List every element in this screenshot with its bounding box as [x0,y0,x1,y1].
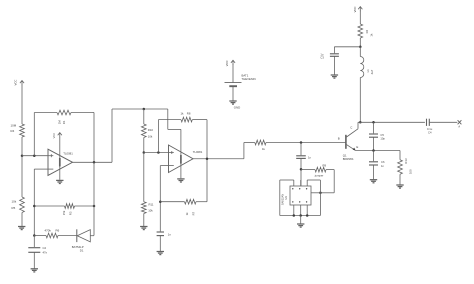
capacitor C2 [28,246,47,254]
wire C8 bottom [159,236,161,252]
wire C7 bottom to IC [300,158,302,186]
resistor R7 [185,199,197,215]
ground (under IC) [297,224,304,227]
node A junction (U1 + input divider tap) [21,154,24,157]
wire C5 top [373,122,375,133]
wire U1 output [73,161,113,163]
wire R9 down [333,170,335,193]
svg-text:C4: C4 [428,131,432,135]
ground (under C2) [31,269,38,272]
svg-text:10k: 10k [148,134,153,138]
inductor L1 [360,57,374,78]
ground (under C8) [157,252,164,255]
wire L1 to collector [359,78,361,123]
wire R3 left lead [34,205,64,207]
wire D1 anode to output net [90,235,94,237]
wire R11 to ground [143,214,145,227]
node Q junction (collector) [359,121,362,124]
svg-text:TL0081: TL0081 [63,151,73,155]
IC U3 SA612AN box [281,186,311,205]
svg-text:R13: R13 [404,158,408,164]
node N junction (IC right pin) [319,192,322,195]
wire node A to U1 + input [22,155,48,157]
wire signal jog down [167,109,169,129]
wire C6 bottom [373,165,375,179]
capacitor C5 [369,133,385,140]
wire C6 top [373,151,375,162]
resistor R11 [141,153,153,214]
wire C7 top [300,143,302,156]
wire R9 right lead [326,169,334,171]
svg-text:C: C [350,125,352,129]
IC pin 1 wrap wire [280,180,294,216]
svg-text:R7: R7 [191,211,195,215]
power VCC arrow (U1 V+ pin) [52,133,62,139]
svg-text:VCC: VCC [225,60,229,66]
resistor R5 10k [12,197,25,213]
svg-text:BFR96S: BFR96S [343,157,354,161]
wire R4 to node A [21,137,23,156]
svg-text:C6: C6 [381,160,385,164]
svg-text:VCC: VCC [14,80,18,86]
wire R6 to D1 cathode [58,235,77,237]
ground (under C6) [370,180,377,183]
svg-text:E: E [356,145,358,149]
port OUT [458,120,462,128]
capacitor C6 [369,160,385,168]
svg-text:R10: R10 [148,128,154,132]
op-amp U1 TL0081 [48,149,73,175]
svg-text:SA612AN: SA612AN [281,194,285,206]
junction dots on ground rail [293,214,309,217]
wire U2 output [193,158,244,160]
wire output net down to diode [93,162,95,235]
svg-text:R5: R5 [12,206,16,210]
wire U1 - input vertical [33,169,35,235]
resistor R8 [181,111,193,122]
resistor R6 470k [45,228,60,238]
IC pin 1 top stub [293,180,295,186]
wire R9 left lead [301,169,315,171]
battery BAT1 THEVENIN [225,73,256,86]
IC pin 3 top stub [306,180,308,186]
wire node N to ground rail [319,193,321,216]
svg-text:R2: R2 [365,29,369,33]
wire emitter to R13 [399,151,401,160]
wire VCC to R4 [21,85,23,124]
svg-text:10p: 10p [380,137,385,141]
svg-text:R3: R3 [69,211,73,215]
resistor R9 jumper [314,163,327,177]
wire emitter line [355,150,400,152]
svg-text:R11: R11 [149,203,154,207]
ground (under battery) [229,101,236,104]
svg-text:47n: 47n [43,251,48,255]
svg-text:1n: 1n [308,155,312,159]
wire R7 left lead [160,201,184,203]
node C junction (U1 output / feedback) [93,161,96,164]
wire U2 power pin vertical [180,152,182,178]
wire feedback vertical [33,113,35,156]
op-amp U2 TL0081 [169,145,203,173]
svg-text:1n: 1n [381,164,384,168]
ground (under R5) [18,227,25,230]
svg-text:jumper: jumper [314,173,324,177]
wire C2 top [33,236,35,248]
svg-text:VCC: VCC [52,133,56,139]
node B junction (feedback to + input) [33,154,36,157]
svg-text:D1: D1 [80,249,84,253]
node K junction (U2 output / feedback) [206,158,209,161]
wire R12 to base node [266,142,346,144]
wire R10 bottom lead [143,138,145,153]
svg-text:C5: C5 [380,133,384,137]
wire U2 - input [160,165,168,167]
svg-text:U3: U3 [284,196,288,200]
wire output up jog [243,143,245,159]
capacitor C4 (output coupling) [427,119,433,135]
node P junction (R2 / L1 / C3) [359,46,362,49]
node E junction (output net / R3) [93,205,96,208]
svg-text:100: 100 [408,169,412,174]
IC bottom pin stubs [294,205,307,216]
ground (under R13) [396,185,403,188]
wire C3 top [333,47,335,53]
wire R9 to node N [320,192,334,194]
svg-text:R4: R4 [11,129,15,133]
resistor R2 [358,24,374,38]
svg-text:R9: R9 [323,163,327,167]
wire node P to L1 [359,47,361,57]
power VCC arrow (battery) [225,60,235,66]
svg-text:C2: C2 [43,246,47,250]
node D junction (- input / R3) [33,205,36,208]
wire VCC to R2 [359,11,361,24]
wire node P to C3 [334,46,360,48]
svg-text:R8: R8 [187,111,191,115]
wire R5 to ground [21,213,23,227]
node R junction (C5 tap) [372,121,375,124]
resistor R12 [255,140,266,151]
svg-text:THEVENIN: THEVENIN [242,77,256,81]
resistor R13 [398,158,413,174]
wire to R12 [244,142,255,144]
ground rail under IC [280,215,321,217]
svg-text:10k: 10k [148,209,153,213]
ground (under C3) [331,75,338,78]
wire R10 top lead [143,109,145,124]
svg-text:R6: R6 [56,228,60,232]
wire C3 bottom [333,56,335,74]
svg-text:C3: C3 [320,55,324,59]
wire feedback down to output [93,113,95,163]
resistor R4 10M [11,124,25,138]
wire U1 output to stage 2 [112,108,168,110]
node G junction (signal / R10) [143,108,146,111]
wire signal jog to U2 V+ pin [180,129,182,152]
svg-text:0.1u: 0.1u [427,127,433,131]
wire U1 power pin vertical [59,137,61,180]
capacitor C8 [157,232,172,236]
wire U1 - input [34,168,47,170]
wire R13 to ground [399,174,401,185]
svg-text:TL0081: TL0081 [193,150,203,154]
wire VCC to battery [232,64,234,82]
IC pin 3 wrap wire [307,180,320,193]
svg-text:10k: 10k [12,200,17,204]
resistor R1 1M (positive feedback) [57,110,71,124]
wire to R6 [34,235,46,237]
svg-text:15k: 15k [62,210,66,215]
wire node I up [157,120,159,153]
capacitor C3 [320,52,339,59]
diode D1 BAT54LP [72,229,91,252]
ground (U1 V- pin) [56,180,63,183]
wire C4 to port [429,121,457,123]
svg-text:VCC: VCC [353,6,357,12]
svg-text:R1: R1 [62,120,66,124]
wire R8 right lead [192,119,207,121]
wire signal jog right [168,128,181,130]
node H junction (divider tap / U2 +) [143,151,146,154]
capacitor C7 [296,155,311,159]
node I junction [157,151,160,154]
wire R7 right lead [196,201,207,203]
node B label [338,136,340,140]
IC right side pin wire [311,192,320,194]
wire R3 right lead [75,205,95,207]
wire feedback vertical x207 [206,120,208,202]
node M junction (C7 / R9 tap) [300,168,303,171]
power VCC arrow (left rail) [14,80,25,86]
wire U1 output up [111,109,113,162]
svg-text:1M: 1M [57,120,61,125]
ground (under R11) [140,227,147,230]
wire C2 bottom [33,252,35,268]
transistor Q1 BFR96S [343,122,359,161]
svg-text:1n: 1n [168,232,172,236]
wire C5 bottom [373,137,375,150]
IC pin 2 top stub (to C7) [300,180,302,186]
wire U2 - net vertical [159,166,161,232]
node S junction (emitter line / C6) [372,149,375,152]
wire to U2 + input [144,152,169,154]
wire node A to R5 [21,156,23,197]
resistor R10 [141,124,153,138]
wire feedback top left [34,112,57,114]
svg-text:10M: 10M [11,124,17,128]
wire rail to ground [300,216,302,224]
svg-text:GND: GND [234,106,240,110]
wire R2 to node P [359,38,361,47]
svg-text:4u7: 4u7 [370,69,374,74]
resistor R3 timing [62,204,75,216]
wire battery to ground [232,87,234,101]
power VCC arrow (top right) [353,6,363,12]
node L junction (base node) [300,141,303,144]
wire feedback top right [71,112,94,114]
svg-text:470k: 470k [45,228,52,232]
svg-text:B: B [338,136,340,140]
wire R8 left run [158,119,181,121]
GND label [234,106,240,110]
ground (U2 V- pin) [177,179,184,182]
node F junction (- net bottom) [33,234,36,237]
svg-text:A: A [458,124,460,128]
wire collector line [358,121,425,123]
node J junction (- net / R7) [159,200,162,203]
